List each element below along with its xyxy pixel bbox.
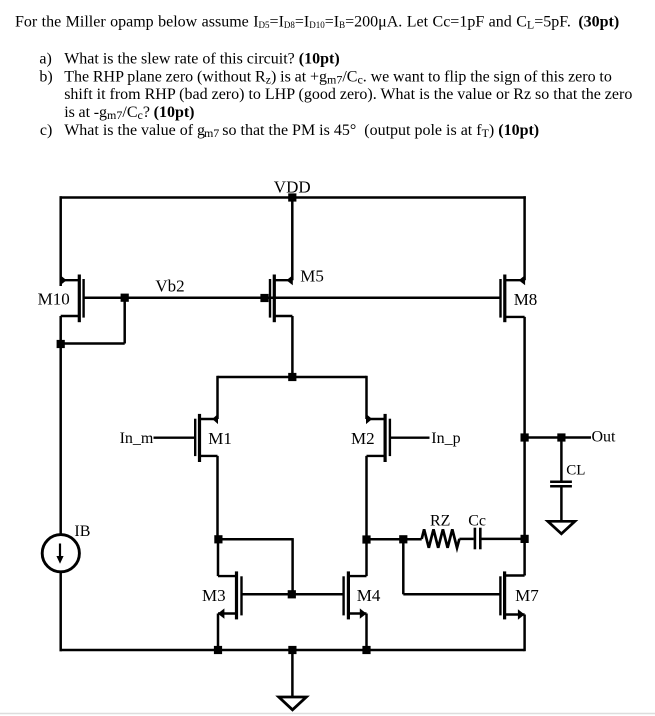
junction bottom rail M4 (362, 646, 370, 654)
wire M3 drain up (217, 541, 220, 577)
capacitor Cc (475, 528, 480, 550)
junction node A (M1/M3 drains) (214, 535, 222, 543)
wire left rail top (VDD to M10 source) (59, 196, 62, 286)
junction Cc right on out line (521, 535, 529, 543)
wire Cc to out line (481, 538, 524, 541)
svg-text:In_p: In_p (431, 430, 460, 447)
wire M5 source drop from VDD (291, 198, 294, 281)
capacitor CL (550, 482, 572, 487)
wire mirror tie vertical down (291, 538, 294, 594)
transistor M8 (501, 275, 526, 323)
svg-text:M7: M7 (515, 586, 539, 605)
junction M10 gate on Vb2 (121, 294, 129, 302)
transistor M10 (60, 275, 83, 323)
wire M1 drain down (216, 456, 219, 539)
svg-text:M3: M3 (202, 586, 226, 605)
svg-text:M10: M10 (38, 290, 70, 309)
svg-text:M5: M5 (300, 267, 324, 286)
junction bottom rail M3 (214, 646, 222, 654)
svg-text:Cc: Cc (468, 513, 486, 530)
svg-text:is at -gm7/Cc? (10pt): is at -gm7/Cc? (10pt) (64, 104, 194, 122)
svg-text:b): b) (39, 68, 52, 85)
svg-text:What is the value of gm7 so th: What is the value of gm7 so that the PM … (64, 122, 539, 140)
svg-text:CL: CL (566, 462, 585, 478)
wire M10 gate-drain tie vertical (123, 298, 126, 344)
svg-text:RZ: RZ (430, 513, 450, 530)
wire IB bottom to rail (59, 572, 62, 651)
wire node B horizontal (M2/M4 drain to RZ) (367, 538, 422, 541)
wire out node horizontal (525, 436, 591, 439)
junction RZ left node (399, 535, 407, 543)
transistor M5 (270, 275, 293, 323)
wire M5 drain to tail rail (291, 316, 294, 377)
transistor M3 (218, 571, 242, 619)
junction tail rail center (288, 373, 296, 381)
junction bottom rail ground stub (288, 646, 296, 654)
wire CL to ground (560, 488, 563, 522)
junction out node on right rail (521, 433, 529, 441)
wire center ground stub (291, 650, 294, 697)
junction mirror gate line (288, 590, 296, 598)
transistor M1 (154, 414, 219, 462)
resistor RZ (422, 529, 460, 548)
wire M2 drain down (365, 456, 368, 540)
transistor M7 (500, 571, 524, 619)
wire M3 source down (217, 614, 220, 651)
wire M7 source down (523, 615, 526, 652)
junction M5 gate on Vb2 (260, 294, 268, 302)
junction M10 drain tie on left rail (57, 340, 65, 348)
wire VDD rail (60, 196, 526, 199)
wire M1 source drop (216, 376, 219, 419)
svg-text:M4: M4 (357, 586, 381, 605)
svg-text:shift it from RHP (bad zero) t: shift it from RHP (bad zero) to LHP (goo… (64, 86, 632, 103)
current source IB (42, 535, 79, 572)
svg-text:a): a) (39, 50, 51, 67)
wire M3-M4 gate line (242, 593, 344, 596)
svg-text:What is the slew rate of this: What is the slew rate of this circuit? (… (64, 50, 339, 67)
page footer rule (0, 713, 655, 715)
junction node B (M2/M4 drains) (362, 535, 370, 543)
junction CL tap (557, 433, 565, 441)
svg-text:In_m: In_m (120, 430, 154, 447)
ground (below CL) (548, 521, 575, 534)
svg-text:M1: M1 (208, 429, 232, 448)
wire M2 source drop (365, 376, 368, 419)
ground (bottom center) (279, 697, 307, 710)
junction VDD/M5 (288, 193, 296, 201)
svg-text:M8: M8 (514, 290, 538, 309)
wire bottom rail (60, 649, 525, 652)
svg-text:For the Miller opamp below ass: For the Miller opamp below assume ID5=ID… (15, 14, 619, 32)
wire M10 gate-drain tie horizontal (61, 342, 125, 345)
svg-text:IB: IB (74, 523, 90, 540)
wire right rail (VDD to M8 source) (523, 196, 526, 280)
svg-text:M2: M2 (351, 429, 375, 448)
svg-text:Vb2: Vb2 (155, 277, 184, 296)
wire node B to M7 gate vertical (402, 539, 405, 594)
wire CL drop (560, 438, 563, 481)
wire RZ to Cc (459, 538, 473, 541)
transistor M4 (344, 571, 367, 619)
wire Vb2 line M10 gate to M8 gate (83, 296, 500, 299)
wire node A horizontal (M1/M3 drain to mirror tie) (218, 538, 293, 541)
svg-text:The RHP plane zero (without Rz: The RHP plane zero (without Rz) is at +g… (64, 68, 612, 86)
wire to M7 gate horizontal (403, 593, 500, 596)
wire M4 source down (365, 614, 368, 651)
svg-text:Out: Out (592, 429, 617, 446)
wire M4 drain up (365, 541, 368, 576)
wire M7 drain lead riser (523, 574, 526, 575)
wire tail rail (218, 376, 367, 379)
svg-text:c): c) (40, 122, 52, 139)
transistor M2 (366, 414, 430, 462)
wire left rail M10 drain to IB (59, 316, 62, 535)
svg-text:VDD: VDD (274, 178, 311, 197)
wire M8 drain down to M7 drain (523, 317, 526, 576)
